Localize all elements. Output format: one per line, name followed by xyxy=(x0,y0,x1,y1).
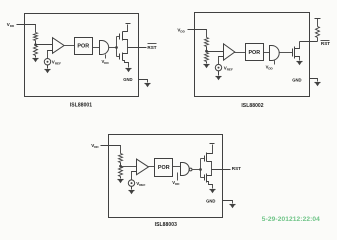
svg-text:ISL88003: ISL88003 xyxy=(155,222,177,228)
svg-text:VDD: VDD xyxy=(91,143,99,149)
svg-text:GND: GND xyxy=(123,77,132,82)
svg-text:VREF: VREF xyxy=(136,181,145,187)
svg-text:VDD: VDD xyxy=(266,65,274,71)
svg-text:RST: RST xyxy=(321,41,330,46)
svg-text:RST: RST xyxy=(232,166,241,171)
svg-text:VREF: VREF xyxy=(52,60,61,66)
svg-text:POR: POR xyxy=(248,50,260,56)
svg-text:5-29-201212:22:04: 5-29-201212:22:04 xyxy=(262,216,320,223)
svg-text:VREF: VREF xyxy=(224,66,233,72)
svg-text:POR: POR xyxy=(77,44,89,50)
svg-text:GND: GND xyxy=(292,78,301,83)
svg-text:ISL88002: ISL88002 xyxy=(241,103,263,109)
svg-text:RST: RST xyxy=(147,45,156,50)
svg-text:GND: GND xyxy=(206,198,215,203)
svg-text:VDD: VDD xyxy=(7,22,15,28)
svg-text:VDD: VDD xyxy=(172,180,180,186)
svg-text:ISL88001: ISL88001 xyxy=(70,102,92,108)
svg-text:VDD: VDD xyxy=(102,59,110,65)
svg-text:VDD: VDD xyxy=(177,28,185,34)
svg-text:POR: POR xyxy=(158,165,170,171)
